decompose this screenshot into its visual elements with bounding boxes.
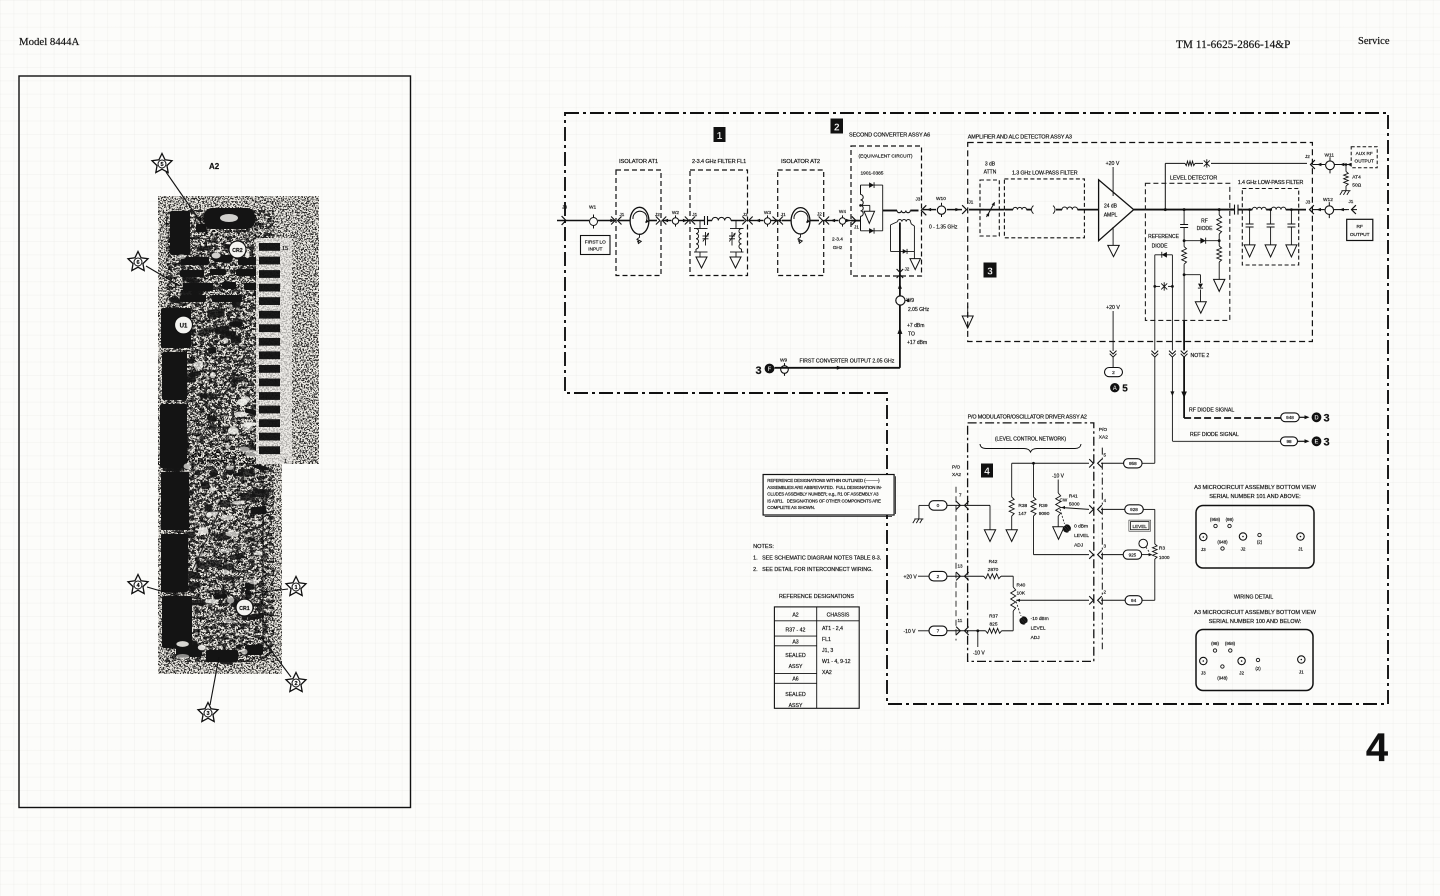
svg-text:A3 MICROCIRCUIT ASSEMBLY BOTTO: A3 MICROCIRCUIT ASSEMBLY BOTTOM VIEW [1194, 610, 1316, 616]
cable W9 lower connector [781, 366, 789, 374]
svg-text:4: 4 [1104, 498, 1107, 503]
svg-text:J3: J3 [1306, 200, 1311, 205]
svg-text:ATTN: ATTN [984, 170, 997, 176]
svg-text:J2: J2 [1239, 671, 1244, 676]
svg-text:1000: 1000 [1159, 555, 1170, 561]
cable W11 with connectors [1313, 164, 1325, 166]
svg-text:J2: J2 [817, 211, 822, 216]
svg-text:925: 925 [1129, 552, 1137, 557]
mixer diode CR bottom [861, 230, 883, 232]
svg-text:LEVEL: LEVEL [1074, 533, 1089, 539]
wire 925 to R3 wiper with arrow [1141, 554, 1149, 556]
svg-text:ASSY: ASSY [789, 703, 803, 709]
svg-text:SEALED: SEALED [785, 653, 806, 659]
1.3 GHz filter inductor 2 [1056, 209, 1062, 211]
oval wire 0 [929, 501, 947, 511]
svg-text:94: 94 [1131, 598, 1137, 603]
svg-text:P/O MODULATOR/OSCILLATOR DRIVE: P/O MODULATOR/OSCILLATOR DRIVER ASSY A2 [968, 415, 1087, 421]
node main line to detector capacitor [1183, 208, 1186, 211]
wire feedback top horizontal [1165, 162, 1185, 164]
wire AT1 output [649, 220, 657, 222]
svg-text:(98): (98) [1226, 517, 1234, 522]
detector bypass branch diode [1184, 274, 1200, 276]
svg-text:CHASSIS: CHASSIS [827, 613, 850, 619]
1.4 GHz low-pass filter dashed box [1242, 189, 1298, 266]
connector J1 amplifier assy input [962, 205, 966, 214]
feedback factory selected component mark [1204, 159, 1210, 167]
connector XA2 pin 11 [947, 630, 986, 632]
svg-text:W3: W3 [764, 210, 772, 216]
svg-text:FIRST CONVERTER OUTPUT 2.05 GH: FIRST CONVERTER OUTPUT 2.05 GHz [800, 359, 895, 365]
resistor R38 with ground [1011, 463, 1013, 497]
amplifier assy ground stub lower left [967, 306, 969, 316]
callout star 3 [198, 703, 218, 722]
svg-text:11: 11 [958, 618, 963, 623]
component label CR2 on photo [229, 241, 246, 258]
svg-text:A3 MICROCIRCUIT ASSEMBLY BOTTO: A3 MICROCIRCUIT ASSEMBLY BOTTOM VIEW [1194, 485, 1316, 491]
node feedback takeoff [1164, 208, 1167, 211]
reference diode CR [1155, 254, 1173, 256]
svg-text:(98): (98) [1211, 641, 1219, 646]
wire feedback vertical [1164, 163, 1166, 209]
arrow to flag D [1300, 416, 1308, 418]
svg-text:R3: R3 [1159, 546, 1165, 552]
svg-text:XA2: XA2 [822, 670, 832, 676]
wire RF diode signal down [1183, 275, 1185, 321]
svg-text:J2: J2 [743, 212, 748, 217]
svg-text:CR2: CR2 [232, 248, 242, 254]
svg-text:A2: A2 [209, 162, 220, 171]
24 dB amplifier U1 triangle [1099, 180, 1134, 241]
detector load resistor lower [1218, 241, 1220, 246]
R41 wiper to pin 4 [1061, 506, 1065, 509]
callout leader line 5 [166, 172, 207, 231]
svg-text:U1: U1 [180, 324, 188, 330]
connector J1 RF output [1352, 205, 1356, 214]
svg-text:R40: R40 [1017, 583, 1026, 589]
1.3 GHz filter coupling gap [1032, 206, 1034, 214]
svg-text:0: 0 [937, 503, 940, 509]
wire 958 to vertical riser [1142, 462, 1155, 464]
wire first LO input entry [557, 220, 589, 222]
driver assy A2 dash-dot box [968, 423, 1094, 662]
filter FL1 series capacitor [693, 220, 705, 222]
wire rf diode signal vertical [1183, 320, 1185, 350]
mixer loop right wire [882, 185, 884, 231]
svg-text:A2: A2 [792, 613, 798, 619]
svg-text:AT1 - 2,4: AT1 - 2,4 [822, 626, 843, 632]
svg-text:2870: 2870 [988, 567, 999, 573]
svg-text:CW: CW [1060, 498, 1068, 503]
node -10V stub [976, 629, 979, 632]
svg-text:J3: J3 [562, 205, 567, 211]
LO matching diode [903, 249, 907, 254]
svg-text:ADJ: ADJ [1074, 543, 1084, 549]
wire REF diode signal horizontal [1172, 440, 1281, 442]
3 dB attenuator symbol [984, 209, 1004, 211]
svg-text:(EQUIVALENT CIRCUIT): (EQUIVALENT CIRCUIT) [859, 154, 913, 160]
svg-text:J1: J1 [969, 200, 974, 205]
A2 PCB photo base [158, 196, 319, 674]
svg-text:2: 2 [937, 574, 940, 580]
resistor R42 2870 [984, 574, 1001, 579]
svg-text:RF: RF [1201, 219, 1208, 225]
svg-text:5: 5 [160, 162, 163, 168]
microcircuit view1 pin 2 [1258, 533, 1261, 536]
connector XA2 pin 13 [947, 575, 984, 577]
svg-text:J1: J1 [781, 212, 786, 217]
svg-text:+20 V: +20 V [904, 575, 918, 581]
svg-text:7: 7 [937, 629, 940, 635]
svg-text:RF: RF [1356, 224, 1362, 230]
wire -10V to oval 7 [918, 630, 929, 632]
svg-text:9090: 9090 [1039, 511, 1050, 517]
microcircuit view2 connector J1 [1298, 656, 1305, 663]
callout star 2 [286, 673, 306, 692]
svg-text:2-3.4: 2-3.4 [832, 237, 843, 243]
svg-text:98: 98 [1286, 439, 1292, 444]
svg-text:(2): (2) [1257, 540, 1263, 545]
pin 7 wire to ground triangle [989, 505, 991, 529]
connector J3 first LO input [562, 216, 566, 225]
svg-text:J2: J2 [655, 212, 660, 217]
svg-text:ASSY: ASSY [789, 664, 803, 670]
svg-text:W9: W9 [780, 358, 788, 364]
svg-text:10K: 10K [1017, 591, 1026, 597]
svg-text:(LEVEL CONTROL NETWORK): (LEVEL CONTROL NETWORK) [995, 437, 1067, 443]
svg-text:R38: R38 [1018, 503, 1027, 509]
wire +20V down to connector [1112, 311, 1114, 351]
svg-text:-10 dBm: -10 dBm [1031, 616, 1049, 622]
amplifier and ALC detector assy A3 dashed box [968, 143, 1313, 342]
flag E 3 [1312, 436, 1322, 446]
cable W9 upper connector [896, 296, 905, 305]
figure border frame [19, 76, 411, 808]
isolator AT2 dashed box [778, 170, 824, 276]
detector lower ground [1214, 279, 1225, 291]
R40 screwdriver adjust -10 dBm [1016, 602, 1021, 617]
potentiometer R41 5000 [1057, 480, 1059, 494]
svg-text:AMPLIFIER AND ALC DETECTOR ASS: AMPLIFIER AND ALC DETECTOR ASSY A3 [968, 135, 1072, 141]
svg-text:W11: W11 [1325, 153, 1335, 159]
svg-text:AMPL: AMPL [1104, 213, 1118, 219]
svg-text:A: A [1113, 386, 1118, 392]
svg-text:SERIAL NUMBER 101 AND ABOVE:: SERIAL NUMBER 101 AND ABOVE: [1209, 494, 1301, 500]
svg-text:OUTPUT: OUTPUT [1350, 232, 1370, 238]
microcircuit view2 connector J2 [1238, 657, 1245, 664]
svg-text:REFERENCE DESIGNATIONS: REFERENCE DESIGNATIONS [779, 594, 854, 600]
callout leader line 2 [261, 637, 291, 677]
svg-text:SECOND CONVERTER ASSY A6: SECOND CONVERTER ASSY A6 [849, 133, 930, 139]
svg-text:(948): (948) [1217, 676, 1228, 681]
svg-text:CR1: CR1 [239, 606, 249, 612]
svg-text:LEVEL: LEVEL [1133, 524, 1148, 529]
R41 screwdriver adjust 0 dBm [1060, 509, 1065, 524]
svg-text:15: 15 [282, 246, 288, 252]
callout star 6 [128, 252, 148, 271]
svg-text:(958): (958) [1225, 641, 1236, 646]
connector J3 filter output [1310, 205, 1314, 214]
wire pin4 to oval 928 [1101, 508, 1125, 510]
svg-text:2-3.4 GHz FILTER FL1: 2-3.4 GHz FILTER FL1 [692, 159, 746, 165]
callout leader line 4 [147, 587, 178, 596]
svg-text:928: 928 [1130, 507, 1138, 512]
callout leader line 6 [146, 266, 180, 286]
detector bypass ground [1195, 302, 1206, 314]
svg-text:W9: W9 [907, 298, 915, 304]
svg-text:2. SEE DETAIL FOR INTERCONNE: 2. SEE DETAIL FOR INTERCONNECT WIRING. [753, 567, 873, 573]
svg-text:5: 5 [1122, 384, 1128, 395]
connector XA2 pin 5 [1089, 459, 1093, 467]
wire 94 to R3 bottom [1142, 599, 1155, 601]
connector XA2 pin 3 [1089, 550, 1093, 558]
svg-text:J2: J2 [1241, 547, 1246, 552]
oval wire 948 [1281, 413, 1300, 422]
svg-text:2: 2 [294, 681, 297, 687]
svg-text:W12: W12 [1323, 197, 1333, 203]
svg-text:13: 13 [958, 564, 964, 569]
callout star 4 [128, 575, 148, 594]
index black square 1 [714, 127, 726, 142]
svg-text:+20 V: +20 V [1106, 305, 1120, 311]
microcircuit view2 pin 2 [1256, 658, 1259, 661]
svg-text:J2: J2 [1305, 154, 1310, 159]
detector coupling capacitor [1183, 210, 1185, 225]
cable W3 with connectors [749, 220, 764, 222]
filter FL1 dashed box [690, 170, 748, 276]
svg-text:Service: Service [1358, 36, 1390, 47]
wire AT1 input [619, 220, 631, 222]
index black square 3 [984, 263, 997, 278]
detector video resistor vertical [1183, 241, 1185, 247]
microcircuit view1 connector J3 [1200, 533, 1207, 540]
wire +20V stub to oval [1112, 357, 1114, 367]
A2 photo edge connector pins [256, 238, 292, 464]
terminator AT4 chassis ground [1340, 191, 1351, 195]
wire R39 to pin 3 [1034, 554, 1090, 556]
A2 photo board edge line lower right [262, 478, 264, 643]
cable W9 vertical line with arrow [899, 276, 901, 368]
svg-text:(948): (948) [1217, 540, 1228, 545]
svg-text:TO: TO [908, 332, 915, 338]
svg-text:REFERENCE DESIGNATIONS WITHIN: REFERENCE DESIGNATIONS WITHIN OUTLINED (… [767, 478, 880, 483]
svg-text:2.05 GHz: 2.05 GHz [908, 307, 930, 313]
svg-text:ISOLATOR AT2: ISOLATOR AT2 [781, 159, 820, 165]
svg-text:LEVEL: LEVEL [1031, 626, 1046, 632]
isolator AT1 dashed box [616, 170, 661, 276]
svg-text:J1: J1 [1298, 547, 1303, 552]
svg-text:R39: R39 [1039, 503, 1048, 509]
terminator AT4 50 ohm [1345, 163, 1348, 166]
circulator AT2 symbol [782, 220, 791, 222]
connector XA2 pin 4 [1089, 505, 1093, 513]
svg-text:XA2: XA2 [952, 472, 961, 478]
svg-text:J1: J1 [1299, 670, 1304, 675]
connector J1 second converter input [852, 216, 856, 224]
connector XA2 left boundary dashed line [955, 487, 957, 641]
svg-text:NOTES:: NOTES: [753, 544, 774, 550]
svg-text:3: 3 [206, 711, 209, 717]
flag A 5 [1110, 383, 1119, 392]
wire 958 vertical from reference diode [1154, 320, 1156, 350]
label box FIRST LO INPUT [581, 236, 611, 255]
svg-text:AT4: AT4 [1352, 175, 1361, 181]
svg-text:R37: R37 [989, 614, 998, 620]
wire +20V into amplifier [1112, 167, 1114, 196]
1.4 GHz low-pass filter series capacitor [1230, 209, 1234, 211]
svg-text:0 - 1.35 GHz: 0 - 1.35 GHz [929, 225, 958, 231]
svg-text:W4: W4 [839, 209, 847, 215]
svg-text:5000: 5000 [1069, 502, 1080, 508]
svg-text:-10 V: -10 V [1052, 474, 1065, 480]
oval wire 925 [1123, 550, 1142, 559]
level detector dashed box [1145, 183, 1229, 320]
cable W4 with connectors [824, 220, 839, 222]
svg-text:1: 1 [284, 459, 287, 465]
oval wire 98 [1281, 437, 1298, 446]
filter FL1 shunt branch 2 inductor and capacitor [735, 221, 737, 229]
svg-text:948: 948 [1286, 415, 1294, 420]
filter FL1 shunt branch 1 inductor and capacitor [699, 221, 701, 229]
svg-text:TM 11-6625-2866-14&P: TM 11-6625-2866-14&P [1176, 39, 1290, 51]
wire -10V stub down [977, 631, 979, 647]
R41 ground triangle [1053, 527, 1065, 540]
1.4 GHz filter shunt capacitors to ground [1248, 208, 1251, 211]
RF diode CR [1184, 240, 1219, 242]
svg-text:E: E [1314, 440, 1318, 446]
svg-text:1.4 GHz LOW-PASS FILTER: 1.4 GHz LOW-PASS FILTER [1238, 180, 1304, 186]
svg-text:D: D [1314, 416, 1319, 422]
reference diode bottom connection with selected mark [1155, 285, 1160, 287]
svg-text:CLUDES ASSEMBLY NUMBER; e.g.,: CLUDES ASSEMBLY NUMBER; e.g., R1 OF ASSE… [767, 492, 879, 497]
svg-text:J1: J1 [1349, 199, 1354, 204]
svg-text:R41: R41 [1069, 494, 1078, 500]
svg-text:2: 2 [834, 122, 840, 133]
svg-text:5: 5 [1104, 453, 1107, 458]
cable W10 with connectors [923, 209, 936, 211]
component label CR1 on photo [236, 599, 253, 616]
svg-text:FL1: FL1 [822, 637, 831, 643]
3 dB attenuator dashed box [980, 180, 999, 236]
svg-text:1: 1 [294, 585, 297, 591]
svg-text:WIRING DETAIL: WIRING DETAIL [1234, 595, 1273, 601]
svg-text:ADJ: ADJ [1031, 635, 1041, 641]
node R39 top [1032, 462, 1035, 465]
svg-text:XA2: XA2 [1099, 435, 1108, 441]
svg-text:IS A3R1. DESIGNATIONS OF OTH: IS A3R1. DESIGNATIONS OF OTHER COMPONENT… [767, 498, 881, 503]
svg-text:0 dBm: 0 dBm [1074, 524, 1088, 530]
svg-text:W10: W10 [936, 196, 946, 202]
microcircuit view2 connector J3 [1200, 657, 1207, 664]
oval wire 94 [1125, 596, 1142, 605]
callout star 1 [286, 577, 306, 596]
detector load resistor upper [1218, 208, 1221, 211]
break marks interconnect note 2 [1110, 351, 1117, 358]
connector XA2 right boundary dash-dot line [1101, 448, 1103, 650]
svg-text:F: F [768, 367, 772, 373]
mixer diode CR top [861, 184, 883, 186]
potentiometer R3 1000 front panel [1153, 544, 1158, 559]
filter FL1 shunt branch 1 ground [696, 257, 707, 268]
svg-text:DIODE: DIODE [1197, 226, 1214, 232]
connector J2 aux output [1311, 160, 1315, 169]
connector XA2 pin 7 [947, 504, 990, 506]
transformer secondary coil [898, 219, 911, 221]
flag D 3 [1312, 412, 1322, 422]
svg-text:R37 - 42: R37 - 42 [786, 628, 806, 634]
cable W1 connector [590, 218, 598, 226]
A2 photo dark component blobs [160, 208, 270, 665]
svg-text:1901-0385: 1901-0385 [861, 171, 884, 177]
cable W12 with connectors [1312, 209, 1325, 211]
svg-text:+20 V: +20 V [1106, 161, 1120, 167]
svg-text:J1: J1 [692, 212, 697, 217]
svg-text:ISOLATOR AT1: ISOLATOR AT1 [619, 159, 658, 165]
filter FL1 shunt branch 2 ground [730, 257, 741, 268]
svg-text:W1: W1 [589, 205, 597, 211]
svg-text:W1 - 4, 9-12: W1 - 4, 9-12 [822, 659, 851, 665]
oval wire 2 +20V [1105, 368, 1123, 377]
svg-text:J2: J2 [905, 267, 910, 272]
svg-text:ASSEMBLIES ARE ABBREVIATED. F: ASSEMBLIES ARE ABBREVIATED. FULL DESIGNA… [767, 485, 882, 490]
svg-text:2: 2 [1104, 590, 1107, 595]
svg-text:R42: R42 [989, 559, 998, 565]
svg-text:1.3 GHz LOW-PASS FILTER: 1.3 GHz LOW-PASS FILTER [1012, 171, 1078, 177]
node detector output [1183, 273, 1186, 276]
svg-text:J3: J3 [1201, 547, 1206, 552]
A3 microcircuit assembly serial 100 below outline [1196, 630, 1313, 691]
svg-text:1: 1 [717, 131, 723, 142]
svg-text:(958): (958) [1210, 517, 1221, 522]
feedback resistor [1185, 161, 1195, 165]
svg-text:GHz: GHz [833, 245, 843, 251]
wire ref diode signal vertical [1171, 320, 1173, 350]
microcircuit view2 pin 948 [1221, 665, 1224, 668]
svg-text:LEVEL DETECTOR: LEVEL DETECTOR [1170, 176, 1217, 182]
svg-text:6: 6 [136, 260, 139, 266]
circulator AT1 symbol [630, 207, 649, 234]
potentiometer R40 10K [1011, 587, 1016, 611]
svg-text:7: 7 [959, 493, 962, 498]
oval wire 928 [1125, 505, 1144, 514]
svg-text:REF DIODE SIGNAL: REF DIODE SIGNAL [1190, 432, 1239, 438]
cable W2 with connectors [662, 220, 672, 222]
svg-text:J3: J3 [1201, 671, 1206, 676]
AUX RF OUTPUT dashed label box [1351, 147, 1377, 168]
A3 microcircuit assembly serial 101 above outline [1196, 506, 1314, 569]
wire R42 to R40 [1012, 576, 1014, 587]
A2 photo pointer lines on board [200, 352, 247, 440]
second converter output wire and coil [883, 210, 897, 212]
front panel LEVEL label box [1131, 522, 1150, 530]
svg-text:REFERENCE: REFERENCE [1148, 234, 1180, 240]
svg-text:P/O: P/O [952, 465, 961, 471]
mixer ground branch [859, 204, 862, 207]
wire 928 to R3 [1143, 508, 1155, 510]
svg-text:FIRST LO: FIRST LO [585, 240, 606, 245]
svg-text:OUTPUT: OUTPUT [1355, 159, 1374, 164]
amplifier ground [1112, 227, 1114, 245]
svg-text:958: 958 [1129, 461, 1137, 466]
oval wire 7 left [929, 626, 947, 636]
component label U1 on photo [175, 316, 193, 334]
1.4 GHz filter inductors [1242, 209, 1252, 211]
wire LO input vertical [899, 223, 901, 277]
R40 wiper to pin 2 [1016, 599, 1020, 602]
chassis ground at XA2 pin 7 [919, 504, 929, 506]
1.3 GHz filter inductor 1 [1004, 209, 1013, 211]
LO matching network wires [891, 222, 898, 225]
